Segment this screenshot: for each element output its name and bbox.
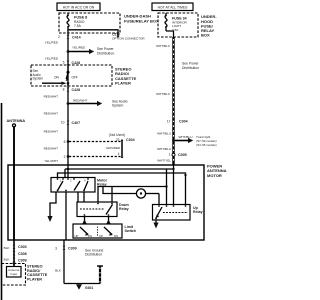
down relay K1 <box>77 202 129 217</box>
svg-text:WHT/BLU: WHT/BLU <box>157 147 171 151</box>
arrow into switch <box>42 82 62 84</box>
radio on/off switch <box>54 65 78 86</box>
ground stub below up relay <box>155 220 157 223</box>
connector C414 pin 2 <box>58 35 80 39</box>
svg-text:Distribution: Distribution <box>182 66 199 70</box>
connector C304 pin 17 <box>167 119 188 123</box>
connector C308 <box>13 251 27 255</box>
svg-text:RED/WHT: RED/WHT <box>73 99 88 103</box>
svg-text:10: 10 <box>61 120 65 124</box>
svg-text:OPTION CONNECTOR: OPTION CONNECTOR <box>112 37 145 41</box>
arrow see audio system <box>68 99 128 108</box>
svg-text:C309: C309 <box>68 246 77 250</box>
svg-text:YEL/RED: YEL/RED <box>45 41 59 45</box>
svg-text:System: System <box>112 104 123 108</box>
svg-text:HOT IN ACC OR ON: HOT IN ACC OR ON <box>63 6 95 10</box>
svg-text:3: 3 <box>55 246 57 250</box>
svg-text:C305: C305 <box>178 153 187 157</box>
svg-text:8: 8 <box>63 87 65 91</box>
svg-text:22: 22 <box>116 138 120 142</box>
label HOT AT ALL TIMES <box>152 3 193 11</box>
svg-text:RED/WHT: RED/WHT <box>44 129 59 133</box>
svg-text:RED/WHT: RED/WHT <box>44 146 59 150</box>
ground wire to C309 <box>65 192 67 240</box>
stereo radio box 2 (dashed) <box>2 264 26 286</box>
svg-text:UP: UP <box>99 234 103 238</box>
motor relay U1 <box>51 165 108 192</box>
svg-text:C428: C428 <box>72 61 81 65</box>
junction node power branch <box>67 50 70 53</box>
svg-text:C407: C407 <box>72 121 81 125</box>
svg-text:DN: DN <box>88 234 92 238</box>
wires motor relay to down relay <box>77 192 79 202</box>
connector C309 pin 3 <box>55 246 76 251</box>
svg-text:Input: Input <box>10 272 17 276</box>
ground distribution bus <box>97 266 103 284</box>
svg-text:C308: C308 <box>18 252 27 256</box>
svg-text:2: 2 <box>64 155 66 159</box>
svg-text:RED/WHT: RED/WHT <box>44 94 59 98</box>
svg-text:Distribution.: Distribution. <box>97 51 115 55</box>
motor M1 <box>103 187 159 205</box>
wire H1 <box>67 168 69 170</box>
arrow see power distribution <box>68 47 115 55</box>
connector C428 pin 5 <box>63 60 80 64</box>
ground arrow below up relay <box>153 223 158 229</box>
svg-text:OFF: OFF <box>72 75 78 79</box>
svg-text:C414: C414 <box>72 35 81 39</box>
svg-text:MOTOR: MOTOR <box>207 173 222 178</box>
ground stub from relay coil <box>50 192 56 216</box>
svg-text:FUSE 8: FUSE 8 <box>74 16 87 20</box>
limit switch S1 <box>73 224 136 238</box>
svg-text:C304: C304 <box>179 119 188 123</box>
svg-text:RED/WHT: RED/WHT <box>44 111 59 115</box>
ground arrow inside box <box>47 216 52 222</box>
ground junction wire <box>64 283 100 285</box>
svg-text:DN: DN <box>114 234 118 238</box>
svg-text:GRN/RED: GRN/RED <box>106 146 121 150</box>
svg-text:4: 4 <box>118 152 120 156</box>
svg-text:WHT/YEL: WHT/YEL <box>157 159 171 163</box>
connector C513 <box>117 36 120 38</box>
svg-text:PLAYER: PLAYER <box>27 278 42 282</box>
svg-text:WHT/BLU: WHT/BLU <box>179 135 193 139</box>
ground G301 <box>76 284 82 289</box>
svg-text:7.5A: 7.5A <box>172 28 179 32</box>
svg-text:2: 2 <box>58 35 60 39</box>
connector C303 <box>4 245 27 250</box>
svg-text:C304: C304 <box>126 138 135 142</box>
wire to option connector <box>67 30 69 31</box>
svg-text:BLK: BLK <box>4 246 11 250</box>
svg-text:G301: G301 <box>85 286 93 290</box>
svg-text:PLAYER: PLAYER <box>115 80 131 85</box>
svg-text:17: 17 <box>167 119 171 123</box>
svg-text:(Not Used): (Not Used) <box>109 133 125 137</box>
wire fuse8 down <box>67 33 69 165</box>
svg-text:WHT/BLU: WHT/BLU <box>156 44 170 48</box>
fuse 34 <box>165 13 188 37</box>
power antenna motor box <box>8 165 204 240</box>
up relay K2 <box>153 205 203 221</box>
connector C428 pin 8 <box>63 87 80 91</box>
svg-text:YEL/WHT: YEL/WHT <box>44 159 58 163</box>
antenna mast <box>7 119 26 240</box>
stereo radio/cassette player box (dashed) <box>31 65 112 86</box>
arrow into antenna input <box>12 263 16 266</box>
pin 6 branch (dashed, not used) <box>64 140 121 144</box>
page border left edge <box>1 103 3 300</box>
svg-text:BLK: BLK <box>4 257 11 261</box>
junction trunk light branch <box>172 139 175 142</box>
wires down relay to limit switch <box>84 217 86 225</box>
wire H3 <box>98 187 167 203</box>
under-dash fuse/relay box (dashed) <box>59 13 120 33</box>
wire WHT/YEL inside box <box>173 165 175 205</box>
svg-text:System: System <box>33 77 44 81</box>
svg-text:ANTENNA: ANTENNA <box>7 119 26 123</box>
connector C309 <box>4 257 27 262</box>
svg-text:BLK: BLK <box>55 268 62 272</box>
label HOT IN ACC OR ON <box>57 3 100 11</box>
svg-text:Distribution: Distribution <box>85 253 102 257</box>
svg-text:WHT/BLU: WHT/BLU <box>157 131 171 135</box>
wire H2 <box>58 173 186 205</box>
svg-text:Switch: Switch <box>125 229 137 233</box>
svg-text:C303: C303 <box>18 245 27 249</box>
svg-text:UP: UP <box>75 234 79 238</box>
svg-text:WHT/BLU: WHT/BLU <box>156 92 170 96</box>
striped wire WHT/BLU down <box>172 37 174 165</box>
svg-text:YEL/RED: YEL/RED <box>72 45 86 49</box>
svg-text:5: 5 <box>63 60 65 64</box>
connector C304 bracket (not used) <box>106 133 135 158</box>
fuse 8 <box>67 13 87 33</box>
svg-text:('94-'95 models): ('94-'95 models) <box>196 143 217 147</box>
svg-text:ON: ON <box>54 75 59 79</box>
svg-text:Relay: Relay <box>193 210 203 214</box>
connector C407 pin 10 <box>61 120 80 124</box>
svg-text:C309: C309 <box>18 258 27 262</box>
coax wire below box <box>13 240 15 266</box>
junction audio branch <box>67 102 70 105</box>
under-hood fuse/relay box (dashed) <box>158 13 198 37</box>
pin 2 branch (dashed) <box>64 155 121 159</box>
svg-text:Relay: Relay <box>119 207 129 211</box>
connector C305 pin 1 <box>169 153 187 158</box>
svg-text:FUSE/RELAY BOX: FUSE/RELAY BOX <box>124 18 159 23</box>
svg-text:HOT AT ALL TIMES: HOT AT ALL TIMES <box>158 6 189 10</box>
antenna input box <box>7 267 22 278</box>
svg-text:YEL/RED: YEL/RED <box>45 56 59 60</box>
svg-text:6: 6 <box>64 140 66 144</box>
svg-text:C428: C428 <box>72 88 81 92</box>
svg-text:7.5A: 7.5A <box>74 24 82 28</box>
ground wire below box <box>63 240 65 284</box>
svg-text:BOX: BOX <box>201 33 210 38</box>
svg-text:1: 1 <box>169 153 171 157</box>
